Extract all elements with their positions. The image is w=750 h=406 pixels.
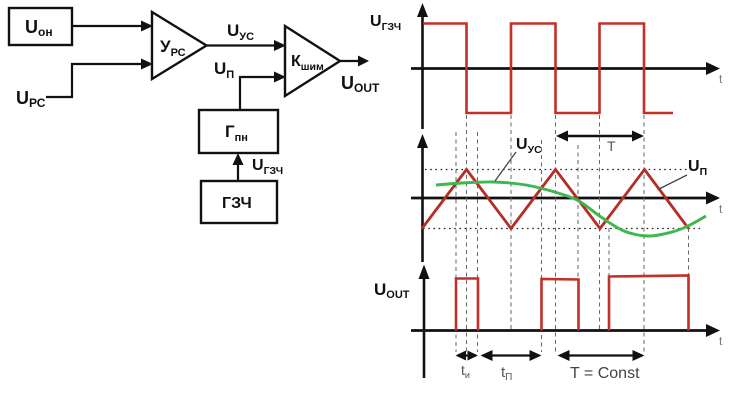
waveform U_УС amplified signal (green curve): [436, 182, 706, 236]
plot1 y-axis: [417, 3, 428, 129]
dotted level line triangle peaks: [425, 169, 700, 171]
plot3 y-axis: [419, 265, 430, 379]
label U_П with pointer: [659, 158, 707, 189]
plot2 y-axis: [417, 134, 428, 262]
waveform U_П sawtooth (red triangle wave): [422, 170, 689, 229]
block U_он (reference voltage source): [9, 8, 72, 45]
plot3 x-axis: [411, 324, 720, 337]
wire U_РС to У_РС lower input: [46, 59, 153, 98]
dashed gridline x=477.5 (pulse1 end): [477, 132, 479, 352]
dashed gridline x=456 (pulse1 start): [455, 132, 457, 352]
dashed gridline x=644 (square fall 3 / peak 3): [643, 115, 645, 352]
dimension arrow t_и: [456, 351, 479, 361]
dashed gridline x=600 (square rise 2 / valley 3): [599, 115, 601, 330]
comparator К_шим (PWM comparator): [285, 26, 340, 96]
plot1 x-axis: [411, 62, 720, 75]
dashed gridline x=609 (pulse3 start): [608, 228, 610, 330]
dashed gridline x=511 (square rise 1 / valley 2): [510, 115, 512, 330]
wire Г_пн output to К_шим lower input: [240, 72, 286, 111]
wire ГЗЧ output to Г_пн input with arrowhead: [233, 153, 244, 181]
dimension arrow T between plot1 and plot2: [556, 131, 644, 142]
dashed gridline x=541.5 (pulse2 start): [541, 140, 543, 352]
svg-text:ГЗЧ: ГЗЧ: [222, 195, 252, 212]
wire У_РС output to К_шим upper input: [207, 40, 287, 51]
waveform U_ГЗЧ square wave: [423, 24, 673, 114]
dotted level line triangle valleys: [423, 228, 700, 230]
dashed gridline x=578 (pulse2 end): [577, 145, 579, 330]
wire К_шим output U_OUT with arrowhead: [340, 56, 369, 67]
dimension arrow T = Const: [558, 350, 645, 361]
waveform U_OUT pulse 1: [456, 279, 478, 331]
wire U_он to У_РС input with arrowhead: [72, 21, 153, 32]
block Г_пн (sawtooth voltage generator): [199, 110, 278, 153]
svg-text:T = Const: T = Const: [570, 365, 640, 382]
waveform U_OUT pulse 2: [542, 279, 579, 331]
plot2 x-axis: [411, 192, 720, 205]
block ГЗЧ (clock generator): [201, 181, 277, 223]
dimension arrow t_П: [481, 350, 542, 361]
dashed gridline x=688.5 (pulse3 end): [688, 228, 690, 330]
dashed gridline x=467 (square fall 1 / peak 1): [466, 115, 468, 352]
label U_УС with pointer: [495, 136, 542, 181]
dashed gridline x=556 (square fall 2 / peak 2): [555, 115, 557, 352]
op-amp У_РС (error amplifier): [152, 12, 207, 79]
svg-text:T: T: [607, 138, 616, 154]
waveform U_OUT pulse 3: [609, 276, 689, 331]
